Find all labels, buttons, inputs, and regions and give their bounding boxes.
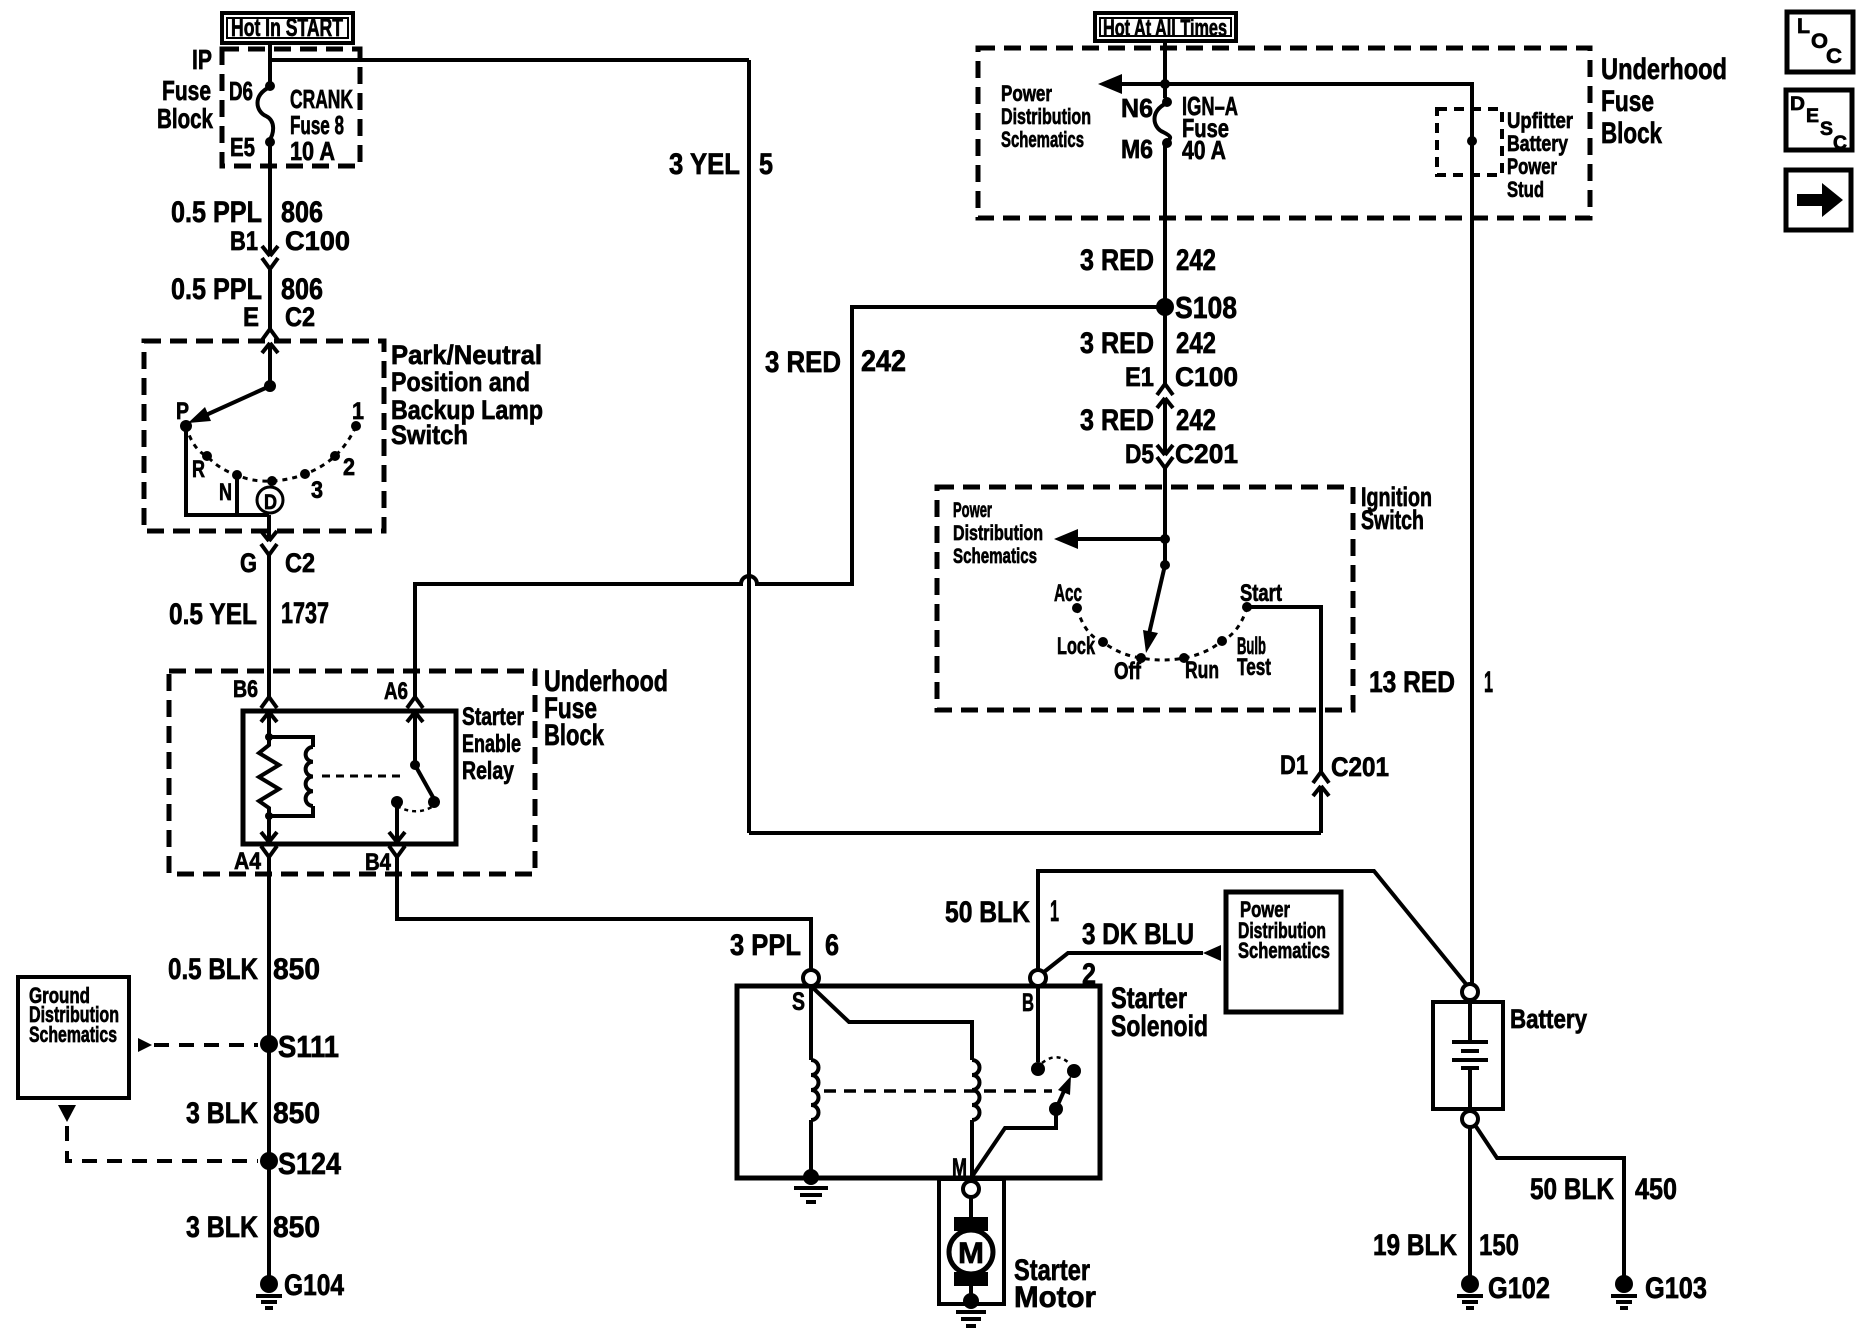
wire 3 YEL 5 bottom run (to ignition switch D1 C201)	[749, 831, 1321, 835]
stud node	[1467, 136, 1477, 146]
svg-text:B: B	[1022, 989, 1034, 1017]
position Lock contact	[1098, 637, 1108, 647]
motor brush (bottom)	[954, 1272, 988, 1286]
svg-text:Solenoid: Solenoid	[1111, 1010, 1208, 1043]
wire P contact to switch output	[186, 426, 269, 515]
battery + terminal	[1462, 984, 1478, 1000]
wire 3 YEL 5 vertical run	[747, 60, 751, 833]
svg-text:242: 242	[1176, 404, 1216, 437]
svg-text:S108: S108	[1175, 290, 1237, 325]
relay coil top node	[265, 733, 273, 741]
svg-text:D1: D1	[1280, 750, 1308, 780]
svg-text:242: 242	[1176, 327, 1216, 360]
ignition switch contact arc (dashed)	[1077, 607, 1247, 660]
svg-text:5: 5	[759, 148, 773, 181]
ground G103	[1615, 1275, 1633, 1293]
svg-text:3 DK BLU: 3 DK BLU	[1082, 918, 1194, 951]
reference arrow to Power Distribution Schematics (ignition)	[1078, 537, 1165, 541]
splice S108	[1156, 298, 1174, 316]
Upfitter Battery Power Stud (dashed box)	[1437, 109, 1502, 175]
dashed reference arrow to S111	[138, 1038, 152, 1052]
svg-text:1: 1	[1484, 666, 1493, 699]
solenoid contact travel arc (dashed)	[1042, 1057, 1070, 1064]
connector into relay pin B6	[261, 697, 277, 708]
svg-text:Run: Run	[1185, 657, 1219, 684]
svg-text:0.5 YEL: 0.5 YEL	[169, 598, 257, 631]
Starter Motor enclosure	[939, 1179, 1004, 1304]
svg-text:G102: G102	[1488, 1272, 1550, 1305]
splice S111	[260, 1035, 278, 1053]
wire Start to connector D1 C201	[1247, 607, 1321, 772]
Starter Enable Relay (solid box)	[243, 711, 456, 844]
LOC page marker box	[1787, 12, 1853, 72]
svg-text:Distribution: Distribution	[953, 522, 1043, 545]
svg-text:Distribution: Distribution	[1001, 104, 1091, 129]
svg-text:2: 2	[343, 454, 355, 481]
junction node (P/N switch wiper feed)	[264, 380, 276, 392]
position Bulb Test contact	[1217, 636, 1227, 646]
svg-text:Battery: Battery	[1507, 131, 1569, 156]
svg-text:50 BLK: 50 BLK	[1530, 1173, 1614, 1206]
svg-text:B4: B4	[365, 849, 392, 876]
label box "Hot In START"	[222, 13, 353, 43]
svg-text:Park/Neutral: Park/Neutral	[391, 340, 542, 370]
connector D1 C201	[1313, 772, 1329, 783]
relay fixed contact (to B4)	[391, 796, 403, 808]
svg-text:3 BLK: 3 BLK	[186, 1211, 258, 1244]
relay coil	[269, 737, 313, 747]
solenoid armature pivot	[1049, 1102, 1063, 1116]
svg-text:D: D	[264, 491, 277, 514]
svg-text:3 PPL: 3 PPL	[730, 929, 801, 962]
svg-text:3 RED: 3 RED	[765, 346, 841, 379]
wire 50 BLK 450 (battery - to G103)	[1475, 1125, 1624, 1284]
splice S124	[260, 1152, 278, 1170]
svg-text:B1: B1	[230, 226, 258, 256]
terminal M	[963, 1181, 979, 1197]
svg-text:850: 850	[273, 1211, 320, 1244]
ground G104	[260, 1275, 278, 1293]
connector B1 C100	[262, 246, 278, 256]
svg-text:19 BLK: 19 BLK	[1373, 1229, 1457, 1262]
terminal S	[803, 970, 819, 986]
label box "Hot At All Times"	[1095, 13, 1236, 41]
svg-text:Switch: Switch	[1361, 505, 1424, 535]
wire 13 RED 1 (stud to battery +)	[1470, 141, 1474, 984]
node D6 (fuse terminal)	[265, 81, 275, 91]
svg-text:Stud: Stud	[1507, 177, 1544, 202]
svg-text:850: 850	[273, 953, 320, 986]
position Start contact	[1242, 602, 1252, 612]
svg-text:Relay: Relay	[462, 757, 514, 785]
svg-text:Fuse: Fuse	[162, 75, 211, 106]
svg-text:M6: M6	[1121, 134, 1153, 164]
solenoid moving contact	[1067, 1064, 1081, 1078]
node N6 (fuse terminal)	[1162, 97, 1172, 107]
motor armature circle M	[949, 1230, 993, 1274]
connector out of relay pin A4	[267, 816, 271, 842]
solenoid case ground	[803, 1169, 819, 1185]
svg-text:S: S	[792, 988, 805, 1016]
svg-text:Test: Test	[1237, 654, 1271, 681]
Ground Distribution Schematics box	[18, 977, 129, 1098]
battery cell symbol	[1468, 1004, 1472, 1040]
connector D5 C201	[1163, 432, 1167, 455]
svg-text:Start: Start	[1240, 580, 1282, 607]
P/N switch contact arc (dashed)	[186, 426, 356, 481]
terminal B	[1030, 970, 1046, 986]
svg-text:Block: Block	[157, 103, 213, 134]
svg-text:3 RED: 3 RED	[1080, 404, 1154, 437]
svg-text:0.5 PPL: 0.5 PPL	[171, 196, 262, 229]
svg-text:C201: C201	[1331, 752, 1389, 782]
node M6 (fuse terminal)	[1162, 138, 1172, 148]
svg-text:Power: Power	[1507, 154, 1557, 179]
position R contact	[202, 451, 212, 461]
svg-text:150: 150	[1479, 1229, 1519, 1262]
svg-text:13 RED: 13 RED	[1369, 666, 1455, 699]
svg-text:N6: N6	[1121, 93, 1153, 123]
wire pivot to M terminal	[971, 1109, 1056, 1178]
battery - terminal	[1462, 1111, 1478, 1127]
svg-text:Hot At All Times: Hot At All Times	[1103, 15, 1227, 42]
relay armature	[415, 765, 434, 799]
Battery (box)	[1433, 1002, 1503, 1109]
solenoid fixed contact (B)	[1031, 1062, 1045, 1076]
svg-text:6: 6	[825, 929, 839, 962]
solenoid contact feed from B	[1036, 986, 1040, 1062]
ground G102	[1461, 1275, 1479, 1293]
wire 3 RED 242 (IGN-A fuse to S108)	[1163, 143, 1167, 307]
svg-text:C2: C2	[285, 548, 315, 578]
svg-text:806: 806	[281, 196, 323, 229]
svg-text:Switch: Switch	[391, 420, 468, 450]
svg-text:Off: Off	[1114, 658, 1142, 685]
svg-text:1: 1	[352, 398, 364, 425]
svg-text:Position and: Position and	[391, 367, 530, 397]
svg-text:L: L	[1797, 15, 1810, 38]
svg-text:P: P	[176, 398, 189, 425]
svg-text:M: M	[958, 1237, 984, 1270]
motor ground	[963, 1293, 979, 1309]
relay coil bottom node	[265, 812, 273, 820]
solenoid pull-in coil (S to M)	[811, 986, 972, 1060]
svg-text:242: 242	[1176, 244, 1216, 277]
svg-text:3 RED: 3 RED	[1080, 244, 1154, 277]
svg-text:Upfitter: Upfitter	[1507, 108, 1573, 133]
Underhood Fuse Block (dashed box, relay)	[169, 671, 535, 874]
svg-text:B6: B6	[233, 676, 258, 703]
svg-text:Schematics: Schematics	[1001, 127, 1084, 152]
svg-text:Fuse: Fuse	[1601, 85, 1654, 118]
svg-text:3 RED: 3 RED	[1080, 327, 1154, 360]
wire into Ignition Switch	[1163, 468, 1167, 565]
svg-text:G: G	[240, 548, 257, 578]
svg-text:D6: D6	[229, 76, 253, 106]
wire 3 DK BLU 2 (B to Power Distribution)	[1044, 953, 1203, 972]
junction node (ignition feed)	[1160, 534, 1170, 544]
svg-text:Underhood: Underhood	[1601, 53, 1727, 86]
svg-text:S124: S124	[278, 1146, 342, 1181]
svg-text:Schematics: Schematics	[1238, 938, 1330, 963]
svg-text:3 YEL: 3 YEL	[669, 148, 740, 181]
svg-text:Enable: Enable	[462, 730, 521, 758]
svg-text:2: 2	[1082, 958, 1096, 991]
svg-text:C201: C201	[1175, 439, 1238, 469]
svg-text:N: N	[219, 479, 232, 506]
junction node (wiper)	[1160, 560, 1170, 570]
DESC page marker box	[1786, 90, 1852, 150]
wire from Hot In START into fuse block	[268, 41, 272, 86]
relay armature pivot	[410, 760, 420, 770]
svg-text:Power: Power	[953, 499, 992, 522]
svg-text:G104: G104	[284, 1269, 344, 1302]
svg-text:50 BLK: 50 BLK	[945, 896, 1030, 929]
Park/Neutral Position and Backup Lamp Switch (dashed box)	[144, 341, 384, 531]
wire 19 BLK 150 (battery - to G102)	[1468, 1127, 1472, 1284]
wire switch output through C2	[267, 515, 271, 541]
relay mechanical link (dashed)	[322, 775, 404, 778]
svg-text:Hot In START: Hot In START	[231, 14, 343, 42]
node E5 (fuse terminal)	[265, 137, 275, 147]
svg-text:40 A: 40 A	[1182, 135, 1226, 165]
position 2 contact	[330, 451, 340, 461]
connector G C2 (out of P/N switch)	[261, 531, 277, 541]
svg-text:242: 242	[861, 345, 906, 378]
solenoid hold-in coil (S to ground)	[809, 986, 813, 1060]
position 3 contact	[300, 469, 310, 479]
reference arrow to Power Distribution Schematics	[1122, 82, 1165, 86]
wire 3 PPL 6 (relay B4 to solenoid S)	[397, 857, 811, 970]
position P contact	[180, 420, 192, 432]
wire 0.5 PPL 806 (C100 to P/N switch)	[268, 270, 272, 329]
wire S108 to connector E1 C100	[1163, 307, 1167, 384]
wire 50 BLK 1 (solenoid B to battery +)	[1038, 871, 1466, 984]
solenoid armature with arrow	[1056, 1091, 1064, 1109]
svg-text:Block: Block	[544, 719, 604, 752]
junction node (feed split)	[1160, 79, 1170, 89]
svg-text:D: D	[1790, 94, 1805, 115]
connector into relay pin A6	[407, 697, 423, 708]
svg-text:A4: A4	[234, 848, 262, 875]
relay resistor (parallel with coil)	[259, 737, 279, 816]
wire 3 RED 242 branch (S108 to relay A6, with hop over 3 YEL)	[415, 307, 1165, 697]
svg-text:S111: S111	[278, 1029, 339, 1064]
wire 0.5 BLK 850 (relay A4 to S111)	[267, 857, 271, 1284]
svg-text:E1: E1	[1125, 362, 1154, 392]
relay contact travel arc (dashed)	[397, 806, 432, 811]
svg-text:D5: D5	[1125, 439, 1154, 469]
wire 0.5 YEL 1737 (P/N switch to relay B6)	[267, 555, 271, 697]
svg-text:G103: G103	[1645, 1272, 1707, 1305]
svg-text:1: 1	[1050, 895, 1059, 928]
IP Fuse Block (dashed outline)	[222, 49, 360, 166]
svg-text:Block: Block	[1601, 117, 1662, 150]
svg-text:E: E	[1806, 106, 1819, 127]
svg-text:Schematics: Schematics	[953, 545, 1037, 568]
dashed reference arrow to S124	[58, 1105, 76, 1122]
svg-text:IP: IP	[192, 44, 212, 75]
connector out of relay pin B4	[395, 802, 399, 842]
position Off contact	[1136, 653, 1146, 663]
svg-text:Acc: Acc	[1054, 580, 1082, 607]
Underhood Fuse Block (dashed box, top)	[978, 48, 1590, 218]
svg-text:0.5 BLK: 0.5 BLK	[168, 953, 258, 986]
svg-text:1737: 1737	[281, 597, 329, 630]
svg-text:E5: E5	[230, 132, 255, 162]
svg-text:Battery: Battery	[1510, 1004, 1587, 1034]
motor brush (top)	[969, 1197, 973, 1217]
svg-text:C: C	[1833, 133, 1847, 154]
wire N contact to switch output	[235, 475, 239, 515]
position Acc contact	[1072, 603, 1082, 613]
svg-text:850: 850	[273, 1097, 320, 1130]
svg-text:Lock: Lock	[1057, 633, 1095, 660]
svg-text:Motor: Motor	[1014, 1281, 1096, 1314]
svg-text:R: R	[192, 456, 205, 483]
svg-text:C100: C100	[1175, 362, 1238, 392]
wire to Upfitter Battery Power Stud	[1165, 84, 1472, 137]
wire 0.5 PPL 806 (fuse E5 to connector C100)	[268, 142, 272, 256]
svg-text:10 A: 10 A	[290, 136, 335, 166]
svg-text:Schematics: Schematics	[29, 1022, 117, 1047]
position D contact (circled D)	[267, 476, 277, 486]
fuse CRANK Fuse 8 10 A	[258, 87, 274, 141]
position N contact	[232, 470, 242, 480]
svg-text:C100: C100	[285, 226, 350, 256]
next-page arrow box	[1786, 170, 1851, 230]
position Run contact	[1179, 653, 1189, 663]
wiper arrow to P position	[206, 386, 270, 415]
wire 3 YEL 5 top run (CRANK fuse to right)	[270, 58, 749, 62]
svg-text:E: E	[243, 302, 259, 332]
Ignition Switch (dashed box)	[937, 487, 1353, 710]
svg-text:Starter: Starter	[462, 703, 524, 731]
relay moving contact	[428, 796, 440, 808]
wire Hot At All Times to IGN-A fuse	[1163, 41, 1167, 98]
svg-text:S: S	[1820, 119, 1833, 140]
solenoid mechanical link (dashed)	[824, 1089, 1052, 1093]
svg-text:3: 3	[311, 477, 323, 504]
svg-text:C2: C2	[285, 302, 315, 332]
svg-text:Power: Power	[1001, 81, 1052, 106]
svg-text:450: 450	[1635, 1173, 1677, 1206]
Power Distribution Schematics box (solenoid)	[1226, 892, 1341, 1012]
Starter Solenoid (solid box)	[737, 986, 1100, 1178]
ignition wiper arrow to Off	[1149, 565, 1165, 634]
svg-text:3 BLK: 3 BLK	[186, 1097, 258, 1130]
svg-text:C: C	[1826, 45, 1842, 68]
fuse IGN-A Fuse 40 A	[1155, 103, 1171, 143]
position 1 contact	[351, 421, 361, 431]
svg-text:A6: A6	[384, 678, 408, 705]
